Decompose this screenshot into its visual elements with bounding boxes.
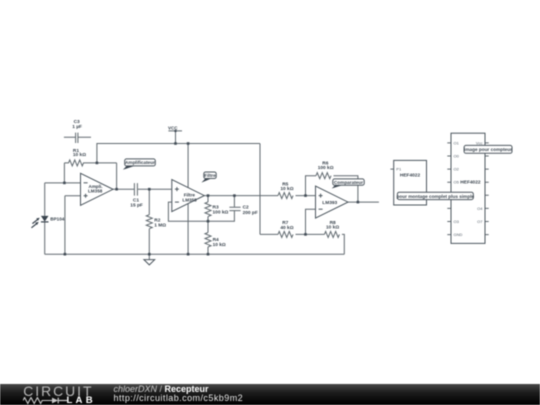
junction C2 top	[233, 194, 236, 197]
wire filtre feedback loop	[168, 196, 234, 222]
svg-text:HEF4022: HEF4022	[460, 180, 481, 186]
junction R2 top	[148, 188, 151, 191]
photodiode D1 BP104	[31, 216, 64, 228]
resistor R3 zigzag	[205, 202, 211, 216]
svg-text:C2: C2	[243, 205, 249, 211]
resistor R8 zigzag	[324, 231, 339, 237]
ground symbol	[144, 260, 155, 265]
svg-text:10 kΩ: 10 kΩ	[280, 186, 293, 192]
svg-text:1 µF: 1 µF	[72, 124, 82, 130]
junction U1 output-feedback	[115, 188, 118, 191]
svg-text:R3: R3	[213, 205, 219, 211]
resistor R5 zigzag	[278, 193, 293, 199]
svg-text:LM393: LM393	[322, 200, 337, 206]
svg-text:Comparateur: Comparateur	[334, 180, 363, 185]
svg-text:15 pF: 15 pF	[130, 203, 143, 209]
svg-text:O4: O4	[477, 206, 483, 211]
svg-text:Amplificateur: Amplificateur	[125, 160, 155, 165]
capacitor C1	[134, 183, 137, 196]
svg-text:O1: O1	[454, 140, 460, 145]
wire comparator minus branch	[306, 209, 316, 234]
junction U3 output-R6	[357, 201, 360, 204]
wire R1 feedback to output	[64, 163, 116, 189]
wire R2 stem	[148, 189, 150, 254]
callout pour montage complet plus simple	[396, 192, 474, 199]
svg-text:pour montage complet plus simp: pour montage complet plus simple	[396, 194, 474, 199]
svg-text:image pour compteur: image pour compteur	[464, 147, 512, 152]
op-amp U1 Ampli LM358	[81, 173, 114, 205]
resistor R2 zigzag	[146, 215, 152, 229]
wire ampli output to filtre	[113, 188, 172, 190]
junction filtre branch-ground rail	[187, 253, 190, 256]
VCC supply symbol	[168, 131, 182, 144]
wire bottom ground rail	[45, 253, 345, 255]
svg-text:O0: O0	[454, 154, 460, 159]
svg-text:LM358: LM358	[88, 189, 103, 194]
svg-text:R4: R4	[213, 237, 219, 243]
logo squiggle resistor+diode	[23, 397, 68, 405]
resistor R6 zigzag	[316, 173, 331, 179]
svg-text:P1: P1	[396, 166, 402, 171]
svg-text:BP104: BP104	[50, 216, 64, 221]
svg-text:200 pF: 200 pF	[243, 210, 258, 216]
svg-text:10 kΩ: 10 kΩ	[73, 152, 86, 158]
svg-text:LM358: LM358	[182, 198, 197, 203]
op-amp U3 comparator LM393	[316, 186, 349, 218]
IC P1 HEF4022 (small block)	[390, 160, 426, 205]
IC U4 HEF4022 (large block)	[447, 133, 488, 243]
wire comparator output	[348, 201, 379, 203]
svg-text:10 kΩ: 10 kΩ	[213, 242, 226, 248]
junction R7-R8-minus branch	[304, 233, 307, 236]
value labels	[72, 119, 339, 248]
svg-text:100 kΩ: 100 kΩ	[213, 210, 229, 216]
junction VCC bar	[174, 130, 176, 132]
junction R6 feedback-plus input	[304, 194, 307, 197]
svg-text:Vcc: Vcc	[476, 140, 483, 145]
svg-text:R2: R2	[154, 217, 160, 223]
wire top rail	[97, 144, 260, 163]
resistor R1 zigzag	[64, 160, 116, 166]
footer bar	[0, 384, 540, 405]
wire vertical rail-to-R7	[259, 144, 261, 235]
callout Comparateur	[332, 179, 364, 189]
callout Amplificateur	[123, 159, 155, 170]
svg-text:O5: O5	[454, 180, 460, 185]
svg-text:HEF4022: HEF4022	[400, 173, 421, 179]
junction plus branch-ground rail	[64, 253, 67, 256]
wire ampli plus input	[65, 196, 81, 254]
junction R1-rail	[96, 162, 99, 165]
wire vertical from rail behind filtre	[187, 144, 189, 255]
svg-text:O3: O3	[454, 219, 460, 224]
svg-text:100 kΩ: 100 kΩ	[318, 165, 334, 171]
junction R3-R4-feedback	[207, 220, 210, 223]
capacitor C3	[64, 133, 91, 143]
resistor R7 zigzag	[278, 231, 293, 237]
junction VCC-rail	[174, 142, 177, 145]
junction R2-ground rail	[148, 253, 151, 256]
junction rail-filtre branch	[187, 142, 190, 145]
callout image pour compteur	[464, 145, 512, 153]
wire R3 stems	[207, 196, 209, 222]
wire R6 feedback	[306, 176, 358, 202]
resistor R4 zigzag	[205, 233, 211, 247]
callout Filtre	[201, 172, 216, 183]
svg-text:10 kΩ: 10 kΩ	[326, 224, 339, 230]
svg-text:VCC: VCC	[168, 125, 178, 130]
svg-text:O7: O7	[477, 219, 483, 224]
wire R4 stems	[207, 221, 209, 254]
wire filtre output line to comparator	[204, 195, 315, 197]
svg-text:Filtre: Filtre	[204, 173, 216, 178]
junction R3 top	[207, 194, 210, 197]
svg-text:Filtre: Filtre	[184, 192, 196, 197]
wire R7 line	[260, 233, 306, 235]
svg-text:1 MΩ: 1 MΩ	[154, 223, 166, 229]
op-amp U2 Filtre LM358	[172, 180, 205, 212]
junction inverting input U1	[63, 182, 66, 185]
junction R4-ground rail	[207, 253, 210, 256]
wire ground stem	[148, 254, 150, 259]
wire photodiode branch	[44, 183, 46, 254]
capacitor C2	[229, 207, 240, 210]
svg-text:40 kΩ: 40 kΩ	[280, 225, 293, 231]
svg-text:O2: O2	[454, 167, 460, 172]
wire R8 line to ground	[306, 234, 345, 254]
svg-text:GND: GND	[454, 232, 463, 237]
wire ampli minus input	[45, 182, 81, 184]
